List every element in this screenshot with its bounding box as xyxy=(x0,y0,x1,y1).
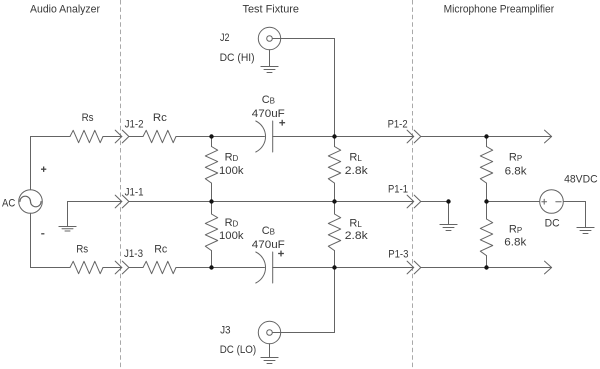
svg-text:CB: CB xyxy=(262,225,275,237)
svg-text:DC: DC xyxy=(545,217,560,229)
svg-text:J2: J2 xyxy=(220,32,230,44)
svg-text:470uF: 470uF xyxy=(252,239,285,251)
svg-text:J1-1: J1-1 xyxy=(125,186,144,198)
svg-text:2.8k: 2.8k xyxy=(345,165,368,177)
svg-text:RD: RD xyxy=(225,152,239,164)
svg-text:DC (LO): DC (LO) xyxy=(220,344,257,356)
svg-text:6.8k: 6.8k xyxy=(505,165,528,177)
svg-text:RL: RL xyxy=(349,218,362,230)
svg-text:Rc: Rc xyxy=(153,112,168,124)
svg-text:Microphone Preamplifier: Microphone Preamplifier xyxy=(444,4,555,16)
svg-text:48VDC: 48VDC xyxy=(564,173,598,185)
svg-text:J1-2: J1-2 xyxy=(125,119,144,131)
svg-text:Rs: Rs xyxy=(82,112,94,124)
svg-text:Rs: Rs xyxy=(76,243,88,255)
svg-text:J3: J3 xyxy=(220,325,231,337)
svg-text:J1-3: J1-3 xyxy=(124,248,143,260)
svg-text:6.8k: 6.8k xyxy=(504,236,527,248)
svg-text:P1-3: P1-3 xyxy=(388,248,408,260)
svg-text:Audio Analyzer: Audio Analyzer xyxy=(30,4,100,16)
svg-text:P1-1: P1-1 xyxy=(388,183,408,195)
svg-text:Test Fixture: Test Fixture xyxy=(243,4,300,16)
svg-text:100k: 100k xyxy=(219,230,244,242)
svg-text:AC: AC xyxy=(2,197,15,209)
svg-text:Rc: Rc xyxy=(154,243,167,255)
svg-text:DC (HI): DC (HI) xyxy=(220,52,255,64)
svg-text:RL: RL xyxy=(349,152,362,164)
svg-text:RP: RP xyxy=(509,223,522,235)
svg-text:CB: CB xyxy=(262,94,275,106)
svg-text:470uF: 470uF xyxy=(252,108,285,120)
svg-text:RP: RP xyxy=(509,152,522,164)
svg-text:RD: RD xyxy=(225,217,239,229)
svg-text:100k: 100k xyxy=(219,165,244,177)
svg-text:2.8k: 2.8k xyxy=(345,230,368,242)
svg-text:P1-2: P1-2 xyxy=(388,119,408,131)
